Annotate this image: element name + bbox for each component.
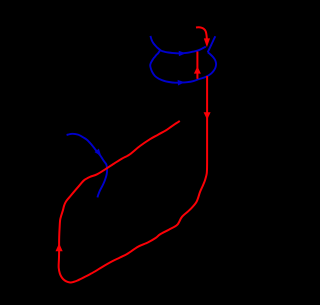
field line main loop [59,76,207,283]
coil upper strand B1 [150,36,205,54]
arrow down on right vertical [204,112,211,120]
coil strand steep descent [208,36,216,52]
arrowhead on lower loop [178,80,185,86]
coil lower loop [150,50,216,83]
arrow up on middle segment [194,66,201,73]
arrowhead on gyration arc [95,149,102,156]
arrowhead on B1 [179,51,186,57]
hook arrow top [196,27,207,38]
hook arrowhead [204,38,210,47]
middle red segment [196,52,198,79]
gyration arc B3 [67,134,107,198]
arrow up on left vertical [56,243,63,251]
